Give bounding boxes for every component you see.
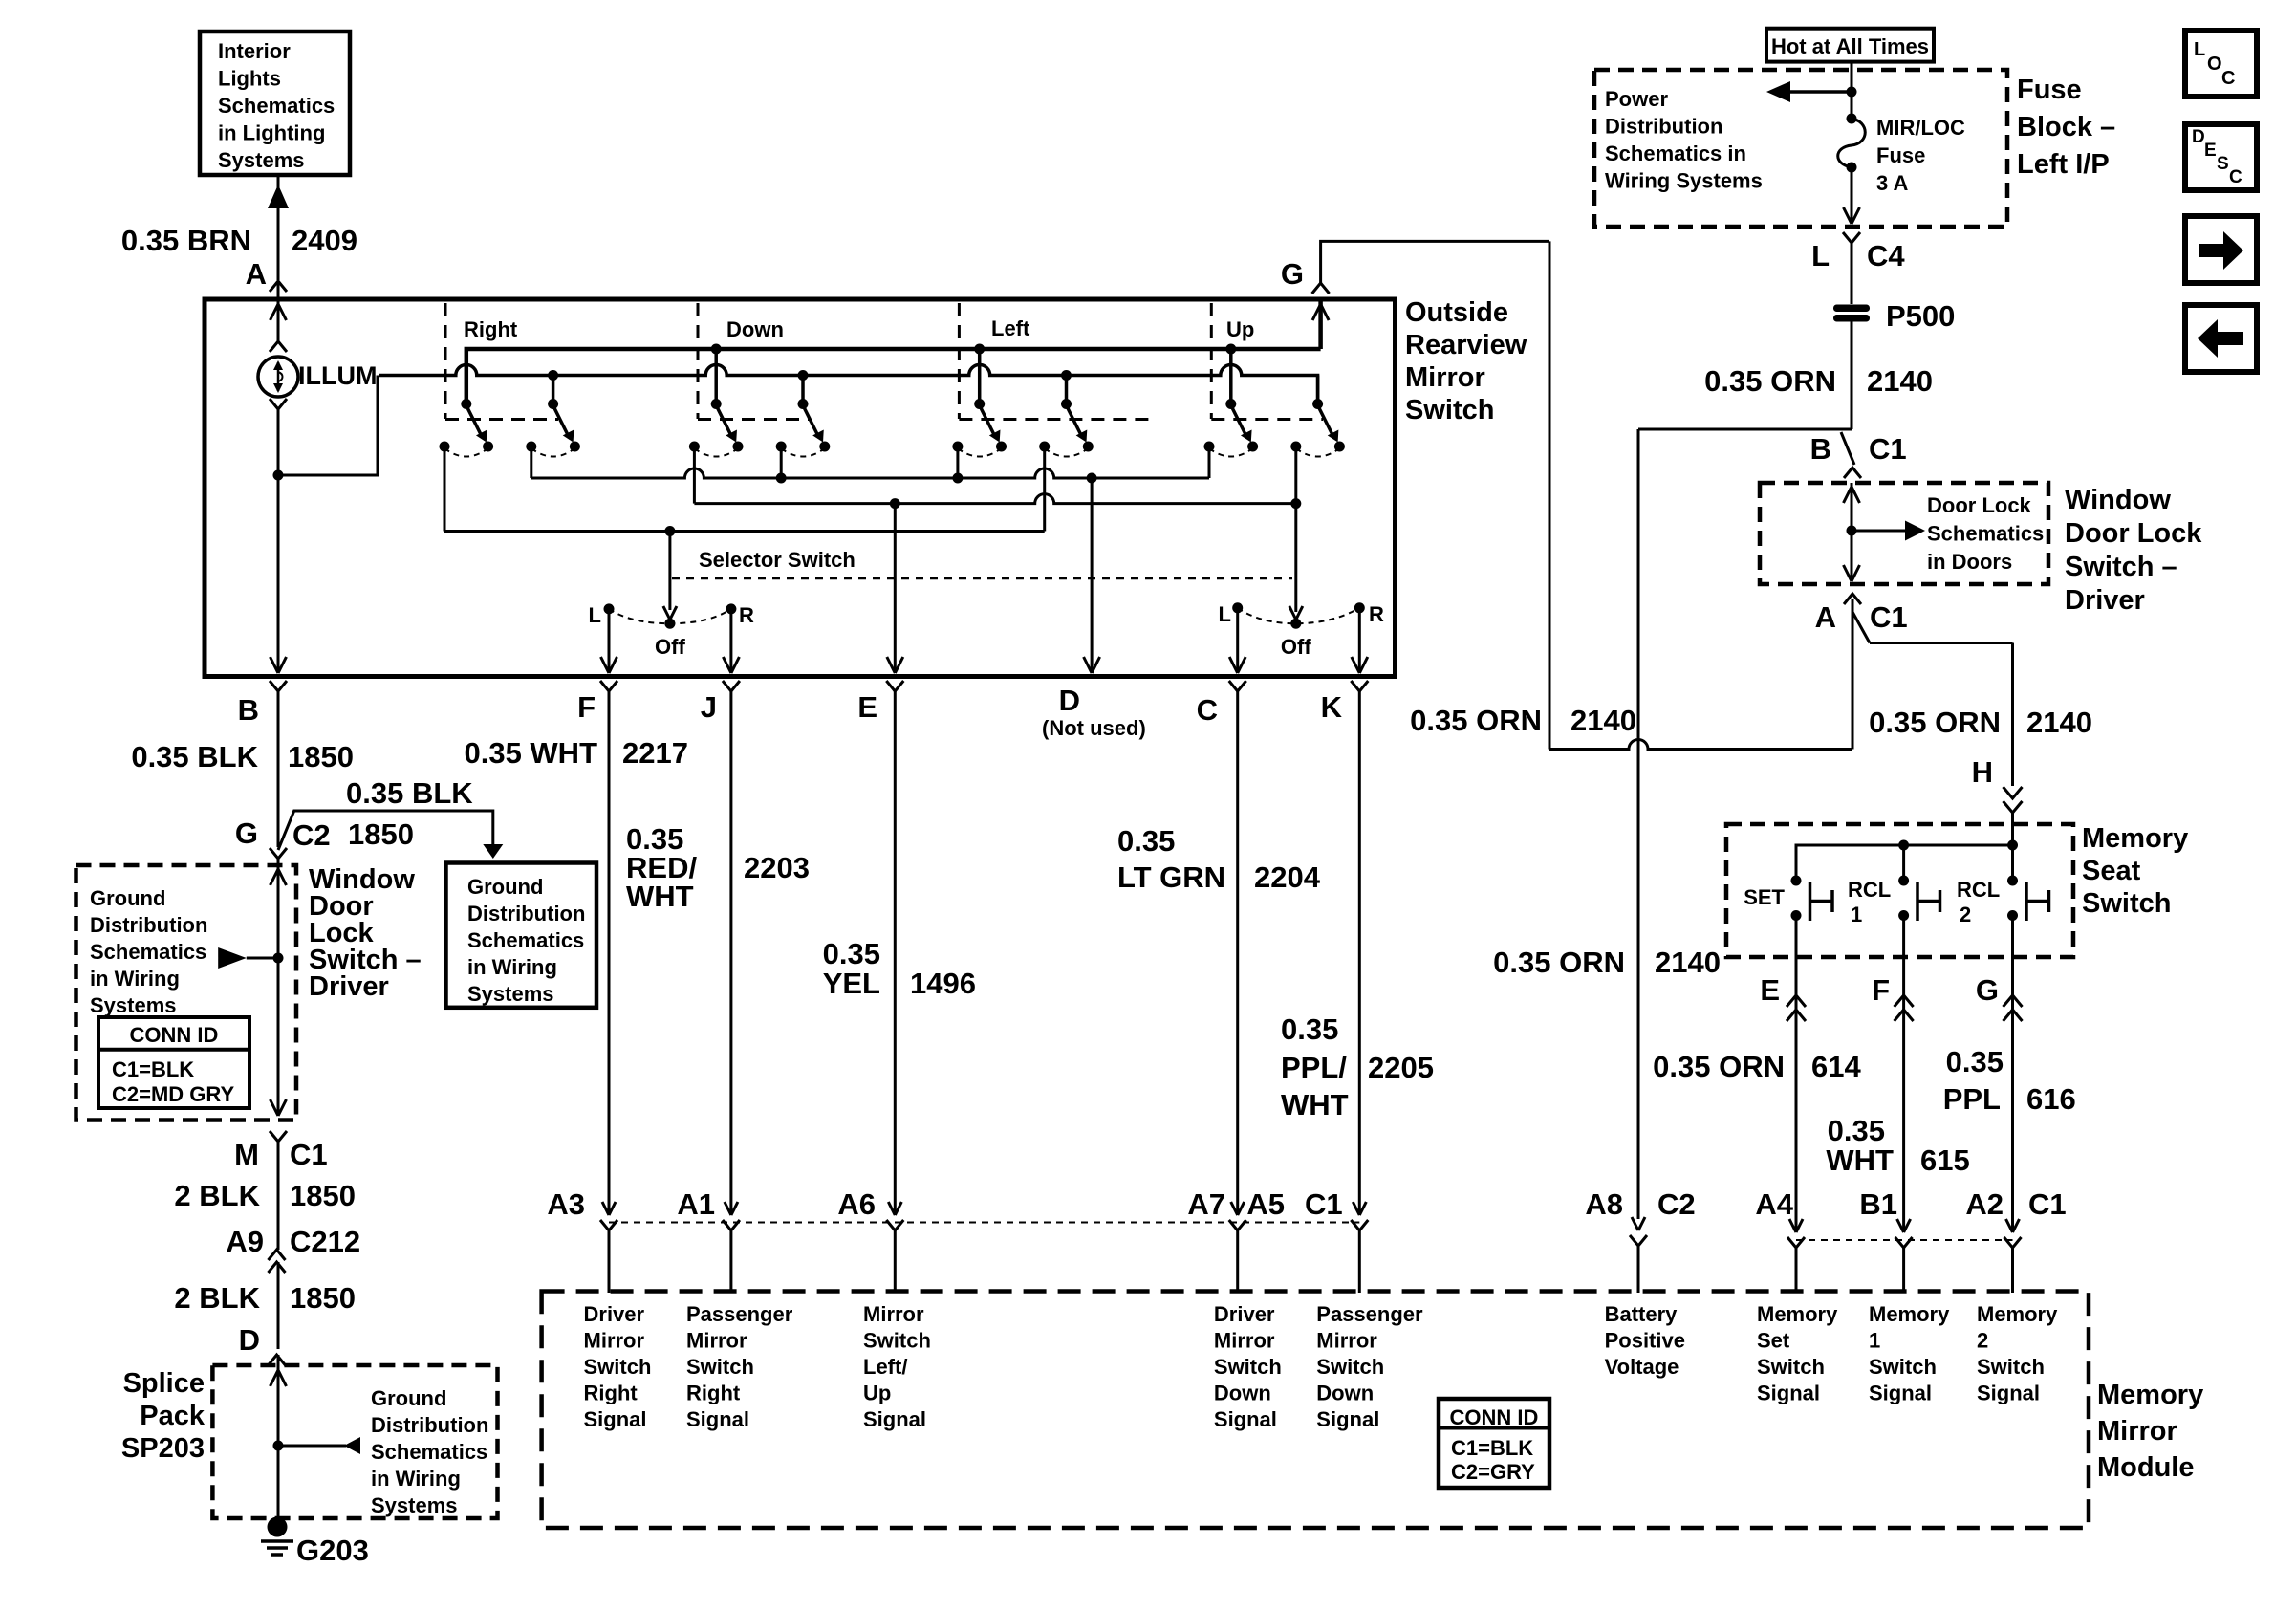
fuse output wire: [1851, 167, 1853, 222]
svg-text:C4: C4: [1867, 239, 1905, 272]
wire R contact to pin K: [1358, 608, 1361, 672]
svg-text:LT GRN: LT GRN: [1117, 860, 1225, 894]
component box: Outside Rearview Mirror Switch: [205, 299, 1396, 677]
stub from Right driver pole left contact: [444, 446, 446, 532]
svg-text:B1: B1: [1859, 1187, 1897, 1221]
svg-text:Systems: Systems: [467, 982, 554, 1006]
arrow into Ground Distribution box: [483, 844, 503, 859]
memory wire G: [2011, 916, 2014, 1233]
memory wire F: [1902, 916, 1905, 1233]
arrow into Interior Lights box: [268, 185, 289, 208]
svg-text:Systems: Systems: [371, 1493, 458, 1517]
junction to power distribution arrow: [1847, 87, 1857, 98]
svg-text:WHT: WHT: [626, 880, 694, 913]
wire through door lock switch ground: [277, 859, 280, 1114]
left selector contacts L Off R: [664, 619, 675, 629]
dashed section box Right: [444, 303, 447, 419]
svg-text:in Lighting: in Lighting: [218, 121, 325, 145]
svg-text:Positive: Positive: [1605, 1329, 1685, 1353]
svg-text:L: L: [1811, 239, 1830, 272]
feed wire from Hot at All Times: [1851, 62, 1853, 119]
svg-text:2205: 2205: [1368, 1051, 1434, 1084]
svg-text:0.35 ORN: 0.35 ORN: [1704, 364, 1836, 398]
svg-text:Window: Window: [2065, 485, 2171, 515]
pin C exit arrow: [1229, 657, 1238, 673]
svg-text:Schematics: Schematics: [218, 94, 335, 118]
switch: Down switch passenger pole: [801, 376, 805, 404]
svg-text:Distribution: Distribution: [1605, 115, 1722, 139]
svg-text:Down: Down: [726, 317, 784, 341]
svg-text:YEL: YEL: [823, 967, 880, 1000]
svg-text:CONN ID: CONN ID: [1450, 1405, 1539, 1429]
memory wire E: [1795, 916, 1798, 1233]
svg-text:Mirror: Mirror: [1214, 1329, 1275, 1353]
right selector contacts L Off R: [1290, 619, 1301, 629]
svg-text:RCL: RCL: [1848, 878, 1891, 902]
svg-text:Schematics: Schematics: [467, 928, 584, 952]
connector chevron into splice pack: [269, 1355, 286, 1365]
svg-text:P500: P500: [1886, 299, 1955, 333]
svg-text:Fuse: Fuse: [2017, 75, 2082, 105]
stub Up passenger pole left contact to right selector: [1294, 446, 1297, 504]
svg-text:0.35: 0.35: [1281, 1012, 1338, 1046]
svg-text:Fuse: Fuse: [1876, 143, 1925, 167]
svg-text:Down: Down: [1316, 1382, 1374, 1405]
svg-text:1: 1: [1851, 903, 1862, 926]
svg-text:Memory: Memory: [1757, 1302, 1838, 1326]
pin G riser and exit: [1318, 299, 1323, 349]
svg-text:2 BLK: 2 BLK: [174, 1281, 260, 1315]
svg-text:C1: C1: [1869, 432, 1907, 466]
svg-text:0.35 BRN: 0.35 BRN: [121, 224, 251, 257]
svg-text:C1: C1: [1870, 600, 1908, 634]
svg-text:1850: 1850: [290, 1179, 356, 1212]
svg-text:Memory: Memory: [2097, 1380, 2203, 1410]
stub Up driver pole left contact: [1208, 446, 1211, 478]
svg-text:Door Lock: Door Lock: [1927, 493, 2032, 517]
stub from Right passenger pole left contact: [530, 446, 532, 478]
svg-text:RCL: RCL: [1957, 878, 2000, 902]
svg-text:F: F: [577, 690, 596, 724]
svg-text:C1=BLK: C1=BLK: [1451, 1436, 1533, 1460]
svg-text:2203: 2203: [744, 851, 810, 884]
dashed section box Left: [958, 303, 961, 419]
svg-text:2409: 2409: [292, 224, 357, 257]
svg-text:0.35 ORN: 0.35 ORN: [1493, 946, 1625, 979]
svg-text:E: E: [2204, 141, 2217, 161]
svg-text:A6: A6: [837, 1187, 876, 1221]
switch: Up switch driver pole: [1229, 349, 1233, 404]
dashed box: Memory Mirror Module: [542, 1292, 2089, 1529]
svg-text:616: 616: [2026, 1082, 2076, 1116]
svg-text:Distribution: Distribution: [467, 902, 585, 925]
svg-text:Voltage: Voltage: [1605, 1355, 1679, 1379]
svg-text:Right: Right: [686, 1382, 741, 1405]
svg-text:Right: Right: [584, 1382, 639, 1405]
pin B exit arrow: [271, 657, 279, 673]
svg-text:0.35 BLK: 0.35 BLK: [131, 740, 258, 773]
svg-text:2217: 2217: [622, 736, 688, 770]
svg-text:Passenger: Passenger: [1316, 1302, 1423, 1326]
svg-text:Rearview: Rearview: [1405, 330, 1527, 360]
svg-text:2204: 2204: [1254, 860, 1321, 894]
ground G203: [268, 1517, 288, 1537]
svg-text:A4: A4: [1755, 1187, 1793, 1221]
svg-text:Mirror: Mirror: [1405, 362, 1485, 393]
svg-text:in Wiring: in Wiring: [90, 967, 180, 991]
connector A C1: [1844, 594, 1861, 604]
svg-text:Distribution: Distribution: [371, 1413, 488, 1437]
dashed section box Down: [697, 303, 700, 419]
nav box next arrow: [2185, 216, 2257, 283]
svg-text:2: 2: [1960, 903, 1971, 926]
svg-text:A3: A3: [547, 1187, 585, 1221]
svg-text:A8: A8: [1585, 1187, 1623, 1221]
pin F exit arrow: [601, 657, 610, 673]
fuse MIR/LOC Fuse 3 A: [1847, 114, 1857, 124]
svg-text:F: F: [1872, 973, 1890, 1007]
svg-text:Left I/P: Left I/P: [2017, 149, 2110, 180]
svg-text:A5: A5: [1246, 1187, 1285, 1221]
svg-text:Ground: Ground: [371, 1386, 446, 1410]
stub Down passenger pole left contact: [780, 446, 783, 478]
svg-text:Power: Power: [1605, 87, 1668, 111]
svg-text:PPL: PPL: [1943, 1082, 2001, 1116]
pin E exit arrow: [887, 657, 896, 673]
svg-text:Selector Switch: Selector Switch: [699, 548, 856, 572]
reference box: Interior Lights Schematics in Lighting Systems: [200, 32, 350, 175]
switch RCL 2: [2007, 876, 2018, 886]
svg-text:L: L: [589, 603, 601, 627]
wire from pin G run to door lock feed: [1549, 241, 1551, 749]
svg-text:SP203: SP203: [121, 1433, 205, 1464]
svg-text:0.35: 0.35: [823, 937, 880, 970]
svg-text:WHT: WHT: [1281, 1088, 1349, 1121]
svg-text:A2: A2: [1965, 1187, 2004, 1221]
svg-text:Passenger: Passenger: [686, 1302, 793, 1326]
arrow from splice to Ground Distribution text: [273, 1441, 284, 1451]
dashed box: Door Lock Schematics in Doors: [1760, 483, 2048, 584]
wire 2140 below P500: [1851, 321, 1853, 429]
jog to memory seat feed: [1852, 612, 1870, 643]
dashed connector line C1 (A3-A5): [609, 1222, 1359, 1224]
bottom tie wire with hop: [1549, 740, 1852, 750]
svg-text:Systems: Systems: [90, 993, 177, 1017]
svg-text:D: D: [239, 1323, 260, 1357]
svg-text:Switch: Switch: [1316, 1355, 1384, 1379]
wire from A C1 down: [1852, 599, 1854, 750]
svg-text:A1: A1: [677, 1187, 715, 1221]
pin F connector: [600, 681, 617, 691]
svg-text:C: C: [2221, 68, 2235, 89]
CONN ID table right: [1439, 1399, 1549, 1488]
battery feed wire to A8: [1637, 429, 1640, 1219]
svg-text:A: A: [246, 257, 267, 291]
wire from lamp to pin B: [277, 409, 280, 672]
svg-text:Schematics: Schematics: [90, 940, 206, 964]
svg-text:C2=MD GRY: C2=MD GRY: [112, 1082, 234, 1106]
lamp ILLUM: [270, 341, 287, 352]
svg-text:D: D: [1059, 684, 1080, 717]
connector A5: [1353, 1202, 1359, 1215]
svg-text:C: C: [1197, 693, 1218, 727]
dashed box: Memory Seat Switch: [1726, 824, 2073, 957]
wire H into memory seat switch: [2011, 643, 2014, 787]
svg-text:Right: Right: [464, 317, 518, 341]
svg-text:MIR/LOC: MIR/LOC: [1876, 116, 1965, 140]
svg-text:Driver: Driver: [309, 971, 389, 1002]
svg-text:2 BLK: 2 BLK: [174, 1179, 260, 1212]
svg-text:Splice: Splice: [123, 1368, 205, 1399]
memory seat internal bus: [1796, 845, 2013, 881]
svg-text:Up: Up: [1226, 317, 1254, 341]
svg-text:C1: C1: [290, 1138, 328, 1171]
nav box DESC: [2185, 124, 2257, 190]
connector L C4: [1843, 232, 1860, 243]
svg-text:G: G: [235, 816, 258, 850]
svg-text:0.35: 0.35: [1828, 1114, 1885, 1147]
svg-text:0.35: 0.35: [1946, 1045, 2004, 1078]
svg-text:Switch: Switch: [584, 1355, 652, 1379]
switch RCL 1: [1898, 876, 1909, 886]
svg-text:J: J: [701, 690, 717, 724]
dashed box: Fuse Block - Left I/P: [1594, 70, 2007, 227]
svg-text:Signal: Signal: [686, 1407, 749, 1431]
svg-text:Driver: Driver: [584, 1302, 645, 1326]
svg-text:1: 1: [1869, 1329, 1880, 1353]
svg-text:A: A: [1815, 600, 1836, 634]
wire 2409 from Interior Lights box to pin A: [277, 175, 280, 280]
svg-text:Hot at All Times: Hot at All Times: [1771, 34, 1929, 58]
svg-text:2: 2: [1977, 1329, 1988, 1353]
svg-text:Signal: Signal: [1316, 1407, 1379, 1431]
svg-text:0.35 WHT: 0.35 WHT: [464, 736, 597, 770]
pin A entry arrow inside switch box: [277, 299, 280, 342]
svg-text:K: K: [1321, 690, 1343, 724]
svg-text:C1=BLK: C1=BLK: [112, 1057, 194, 1081]
switch: Left switch driver pole: [978, 349, 982, 404]
svg-text:E: E: [857, 690, 877, 724]
svg-text:Switch: Switch: [1214, 1355, 1282, 1379]
svg-text:Distribution: Distribution: [90, 913, 207, 937]
svg-text:0.35 ORN: 0.35 ORN: [1869, 706, 2001, 739]
svg-text:0.35 BLK: 0.35 BLK: [346, 776, 473, 810]
bus from pin G feeding switch pivots: [466, 349, 1321, 404]
dashed box: Window Door Lock Switch - Driver (ground side): [76, 865, 297, 1121]
svg-text:G: G: [1976, 973, 1999, 1007]
connector G C2 jog to ground splice: [270, 848, 287, 859]
bus row to Up passenger pole: [694, 494, 1295, 504]
dashed connector line (A4-A2): [1796, 1239, 2013, 1241]
svg-text:2140: 2140: [1867, 364, 1933, 398]
stub from Down driver pole left contact: [693, 446, 696, 504]
svg-text:2140: 2140: [2026, 706, 2092, 739]
svg-text:E: E: [1760, 973, 1780, 1007]
switch: Left switch passenger pole: [1065, 376, 1069, 404]
connector A3: [602, 1202, 609, 1215]
pin J connector: [723, 681, 740, 691]
svg-text:Switch: Switch: [1757, 1355, 1825, 1379]
svg-text:Outside: Outside: [1405, 297, 1508, 328]
svg-text:Off: Off: [655, 635, 685, 659]
svg-text:R: R: [739, 603, 754, 627]
svg-text:Ground: Ground: [467, 875, 543, 899]
svg-text:Battery: Battery: [1605, 1302, 1679, 1326]
pin C connector: [1229, 681, 1246, 691]
connector A7: [1231, 1202, 1238, 1215]
svg-text:Switch –: Switch –: [2065, 552, 2177, 582]
wire L contact to pin C: [1236, 608, 1239, 672]
svg-text:Mirror: Mirror: [1316, 1329, 1377, 1353]
svg-text:C1: C1: [2028, 1187, 2067, 1221]
svg-text:D: D: [2192, 127, 2205, 147]
svg-text:Signal: Signal: [863, 1407, 926, 1431]
svg-text:Signal: Signal: [1869, 1382, 1932, 1405]
connector A1: [725, 1202, 731, 1215]
svg-text:Switch: Switch: [686, 1355, 754, 1379]
dashed section box Up: [1210, 303, 1213, 419]
switch: Right switch driver pole: [465, 349, 468, 404]
pin K connector: [1351, 681, 1368, 691]
svg-text:Set: Set: [1757, 1329, 1790, 1353]
dashed box: Splice Pack SP203: [212, 1365, 497, 1518]
right selector feed arrow: [1289, 606, 1296, 620]
svg-text:Switch: Switch: [1405, 395, 1494, 425]
bus row to Up driver pole: [531, 468, 1209, 478]
svg-text:L: L: [2194, 39, 2205, 60]
svg-text:C: C: [2229, 167, 2242, 187]
svg-text:Signal: Signal: [1214, 1407, 1277, 1431]
svg-text:Memory: Memory: [1977, 1302, 2058, 1326]
switch: Right switch passenger pole: [552, 376, 555, 404]
svg-text:Schematics in: Schematics in: [1605, 142, 1746, 165]
svg-text:Signal: Signal: [1977, 1382, 2040, 1405]
svg-text:Seat: Seat: [2082, 856, 2141, 886]
svg-text:Systems: Systems: [218, 148, 305, 172]
svg-text:(Not used): (Not used): [1042, 716, 1146, 740]
switch: Down switch driver pole: [714, 349, 718, 404]
svg-text:A7: A7: [1187, 1187, 1225, 1221]
svg-text:ILLUM: ILLUM: [298, 361, 377, 390]
svg-text:Driver: Driver: [1214, 1302, 1275, 1326]
svg-text:A9: A9: [226, 1225, 264, 1258]
illumination bus: [379, 365, 1318, 400]
svg-text:WHT: WHT: [1826, 1143, 1894, 1177]
wire to pin E: [894, 504, 897, 672]
stub Left driver pole left contact: [956, 446, 959, 478]
CONN ID table left: [98, 1017, 249, 1108]
svg-text:Schematics: Schematics: [371, 1440, 487, 1464]
connector M C1: [270, 1131, 287, 1142]
svg-text:S: S: [2217, 154, 2229, 174]
svg-text:in Wiring: in Wiring: [371, 1467, 461, 1491]
pin E connector: [886, 681, 903, 691]
svg-text:1850: 1850: [288, 740, 354, 773]
arrow from Schematics text to wire: [218, 947, 247, 969]
svg-text:O: O: [2207, 54, 2222, 75]
svg-text:in Doors: in Doors: [1927, 550, 2012, 574]
svg-text:Off: Off: [1281, 635, 1311, 659]
wire L contact to pin F: [608, 609, 611, 672]
wire to pin D (not used): [1091, 478, 1094, 672]
svg-text:0.35 ORN: 0.35 ORN: [1410, 704, 1542, 737]
bus to selector switches: [444, 530, 1045, 533]
stub left contact Left passenger pole: [1043, 446, 1046, 532]
svg-text:Left/: Left/: [863, 1355, 907, 1379]
svg-text:B: B: [1810, 432, 1831, 466]
svg-text:1850: 1850: [348, 817, 414, 851]
svg-text:Ground: Ground: [90, 886, 165, 910]
svg-text:2140: 2140: [1570, 704, 1636, 737]
svg-text:R: R: [1369, 602, 1384, 626]
switch SET: [1791, 876, 1802, 886]
svg-text:C2=GRY: C2=GRY: [1451, 1460, 1535, 1484]
svg-text:Block –: Block –: [2017, 112, 2115, 142]
svg-text:Memory: Memory: [2082, 823, 2188, 854]
svg-text:C212: C212: [290, 1225, 360, 1258]
wire R contact to pin J: [729, 609, 732, 672]
svg-text:Mirror: Mirror: [2097, 1416, 2177, 1447]
svg-text:1850: 1850: [290, 1281, 356, 1315]
svg-text:in Wiring: in Wiring: [467, 955, 557, 979]
svg-text:1496: 1496: [910, 967, 976, 1000]
pass-through grommet P500: [1833, 305, 1870, 313]
svg-text:Switch: Switch: [1869, 1355, 1937, 1379]
nav box LOC: [2185, 31, 2257, 97]
svg-text:Door Lock: Door Lock: [2065, 518, 2202, 549]
svg-text:G203: G203: [296, 1534, 369, 1567]
svg-text:Switch: Switch: [2082, 888, 2171, 919]
svg-text:Wiring Systems: Wiring Systems: [1605, 169, 1763, 193]
svg-text:C2: C2: [292, 818, 331, 852]
svg-text:Lights: Lights: [218, 67, 281, 91]
switch: Up switch passenger pole: [1316, 376, 1320, 404]
svg-text:CONN ID: CONN ID: [130, 1023, 219, 1047]
svg-text:Driver: Driver: [2065, 585, 2145, 616]
svg-text:614: 614: [1811, 1050, 1861, 1083]
svg-text:Mirror: Mirror: [863, 1302, 924, 1326]
svg-text:H: H: [1972, 755, 1993, 789]
svg-text:Down: Down: [1214, 1382, 1271, 1405]
pin D exit arrow: [1084, 657, 1093, 673]
svg-text:Up: Up: [863, 1382, 891, 1405]
reference tag box: Hot at All Times: [1766, 29, 1934, 62]
svg-text:0.35 ORN: 0.35 ORN: [1653, 1050, 1785, 1083]
branch wire to door lock switch: [1638, 428, 1852, 431]
svg-text:Module: Module: [2097, 1452, 2195, 1483]
svg-text:Switch: Switch: [1977, 1355, 2045, 1379]
junction below lamp: [273, 470, 284, 481]
connector chevron at pin A: [270, 281, 287, 292]
svg-text:Switch: Switch: [863, 1329, 931, 1353]
svg-text:Left: Left: [991, 316, 1030, 340]
wire loop from lamp junction to illumination bus: [278, 376, 378, 476]
svg-text:Mirror: Mirror: [584, 1329, 645, 1353]
svg-text:Mirror: Mirror: [686, 1329, 747, 1353]
pin J exit arrow: [723, 657, 731, 673]
svg-text:Signal: Signal: [584, 1407, 647, 1431]
pin K exit arrow: [1352, 657, 1360, 673]
selector switch dashed boundary: [672, 577, 1292, 580]
connector A6: [888, 1202, 895, 1215]
svg-text:Memory: Memory: [1869, 1302, 1950, 1326]
svg-text:Signal: Signal: [1757, 1382, 1820, 1405]
left selector feed: [668, 532, 671, 611]
svg-text:SET: SET: [1744, 885, 1785, 909]
svg-text:615: 615: [1920, 1143, 1970, 1177]
svg-text:2140: 2140: [1655, 946, 1721, 979]
svg-text:B: B: [238, 693, 259, 727]
